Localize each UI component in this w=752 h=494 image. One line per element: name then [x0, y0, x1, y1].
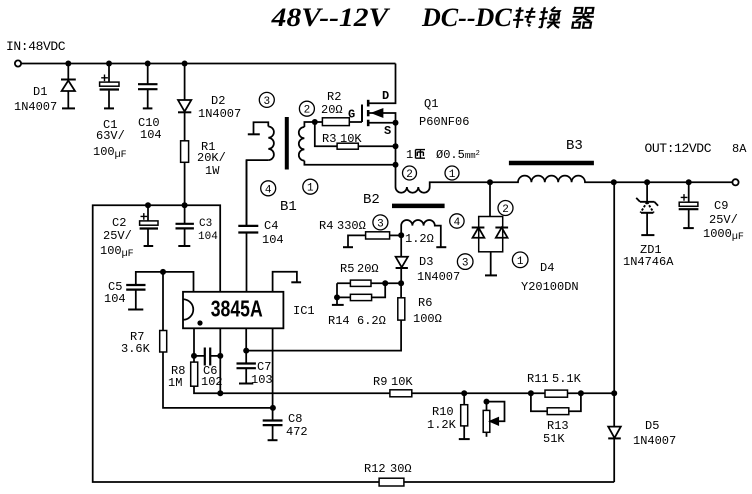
svg-text:63V/: 63V/	[96, 129, 125, 143]
svg-text:4: 4	[265, 184, 272, 196]
svg-text:D5: D5	[645, 419, 659, 433]
svg-text:R11: R11	[527, 372, 549, 386]
svg-text:104: 104	[104, 292, 126, 306]
svg-text:20Ω: 20Ω	[357, 262, 379, 276]
svg-text:20Ω: 20Ω	[321, 103, 343, 117]
svg-text:R12: R12	[364, 462, 386, 476]
svg-text:20K/: 20K/	[197, 151, 226, 165]
svg-text:IN:48VDC: IN:48VDC	[6, 39, 66, 54]
svg-text:R10: R10	[432, 405, 454, 419]
svg-text:103: 103	[251, 373, 273, 387]
svg-text:B3: B3	[566, 138, 583, 154]
svg-text:25V/: 25V/	[103, 229, 132, 243]
svg-text:10K: 10K	[340, 132, 362, 146]
svg-text:C7: C7	[257, 360, 271, 374]
svg-text:104: 104	[262, 233, 284, 247]
svg-text:25V/: 25V/	[709, 213, 738, 227]
svg-text:1W: 1W	[205, 164, 220, 178]
svg-text:1: 1	[406, 148, 413, 162]
svg-text:102: 102	[201, 375, 223, 389]
svg-text:D4: D4	[540, 261, 554, 275]
svg-text:330Ω: 330Ω	[337, 219, 366, 233]
svg-text:1.2K: 1.2K	[427, 418, 457, 432]
svg-text:R5: R5	[340, 262, 354, 276]
svg-text:D1: D1	[33, 85, 47, 99]
svg-text:3: 3	[263, 96, 270, 108]
svg-text:104: 104	[140, 128, 162, 142]
svg-text:51K: 51K	[543, 432, 565, 446]
svg-text:R14: R14	[328, 314, 350, 328]
svg-text:2: 2	[502, 204, 509, 216]
svg-text:1: 1	[307, 183, 314, 195]
svg-text:3845A: 3845A	[211, 296, 263, 322]
svg-text:1: 1	[449, 169, 456, 181]
svg-text:1N4007: 1N4007	[14, 100, 57, 114]
svg-text:3.6K: 3.6K	[121, 342, 151, 356]
svg-text:8A: 8A	[732, 142, 747, 156]
svg-text:B1: B1	[280, 199, 297, 215]
svg-text:6.2Ω: 6.2Ω	[357, 314, 386, 328]
svg-text:Q1: Q1	[424, 97, 438, 111]
svg-text:D2: D2	[211, 94, 225, 108]
svg-text:3: 3	[377, 218, 384, 230]
svg-text:2: 2	[304, 105, 311, 117]
svg-text:G: G	[348, 108, 355, 122]
svg-text:30Ω: 30Ω	[390, 462, 412, 476]
svg-text:C3: C3	[199, 218, 212, 230]
svg-text:C4: C4	[264, 219, 278, 233]
svg-text:R2: R2	[327, 90, 341, 104]
svg-text:R4: R4	[319, 219, 333, 233]
svg-text:C9: C9	[714, 199, 728, 213]
svg-text:Y20100DN: Y20100DN	[521, 280, 579, 294]
svg-text:1N4007: 1N4007	[417, 270, 460, 284]
svg-text:48V--12V: 48V--12V	[271, 3, 392, 32]
svg-text:5.1K: 5.1K	[552, 372, 582, 386]
svg-text:1N4007: 1N4007	[633, 434, 676, 448]
svg-text:3: 3	[462, 258, 469, 270]
svg-text:472: 472	[286, 425, 308, 439]
svg-text:IC1: IC1	[293, 304, 315, 318]
svg-text:100Ω: 100Ω	[413, 312, 442, 326]
svg-text:10K: 10K	[391, 375, 413, 389]
svg-text:1.2Ω: 1.2Ω	[405, 232, 434, 246]
svg-text:1N4007: 1N4007	[198, 107, 241, 121]
svg-text:C2: C2	[112, 216, 126, 230]
svg-text:OUT:12VDC: OUT:12VDC	[645, 141, 712, 156]
svg-text:104: 104	[198, 231, 218, 243]
svg-text:2: 2	[406, 169, 413, 181]
svg-text:1M: 1M	[168, 376, 182, 390]
svg-text:D3: D3	[419, 255, 433, 269]
svg-text:R13: R13	[547, 419, 569, 433]
svg-text:P60NF06: P60NF06	[419, 115, 469, 129]
svg-text:S: S	[384, 124, 391, 138]
svg-text:4: 4	[454, 217, 461, 229]
svg-text:B2: B2	[363, 192, 380, 208]
svg-text:D: D	[382, 89, 389, 103]
svg-text:Ø0.5mm2: Ø0.5mm2	[436, 148, 480, 162]
svg-text:1: 1	[517, 256, 524, 268]
svg-text:1N4746A: 1N4746A	[623, 255, 674, 269]
svg-text:DC--DC: DC--DC	[421, 3, 512, 32]
svg-text:R3: R3	[322, 132, 336, 146]
svg-text:R9: R9	[373, 375, 387, 389]
svg-text:R6: R6	[418, 296, 432, 310]
svg-text:C8: C8	[288, 412, 302, 426]
